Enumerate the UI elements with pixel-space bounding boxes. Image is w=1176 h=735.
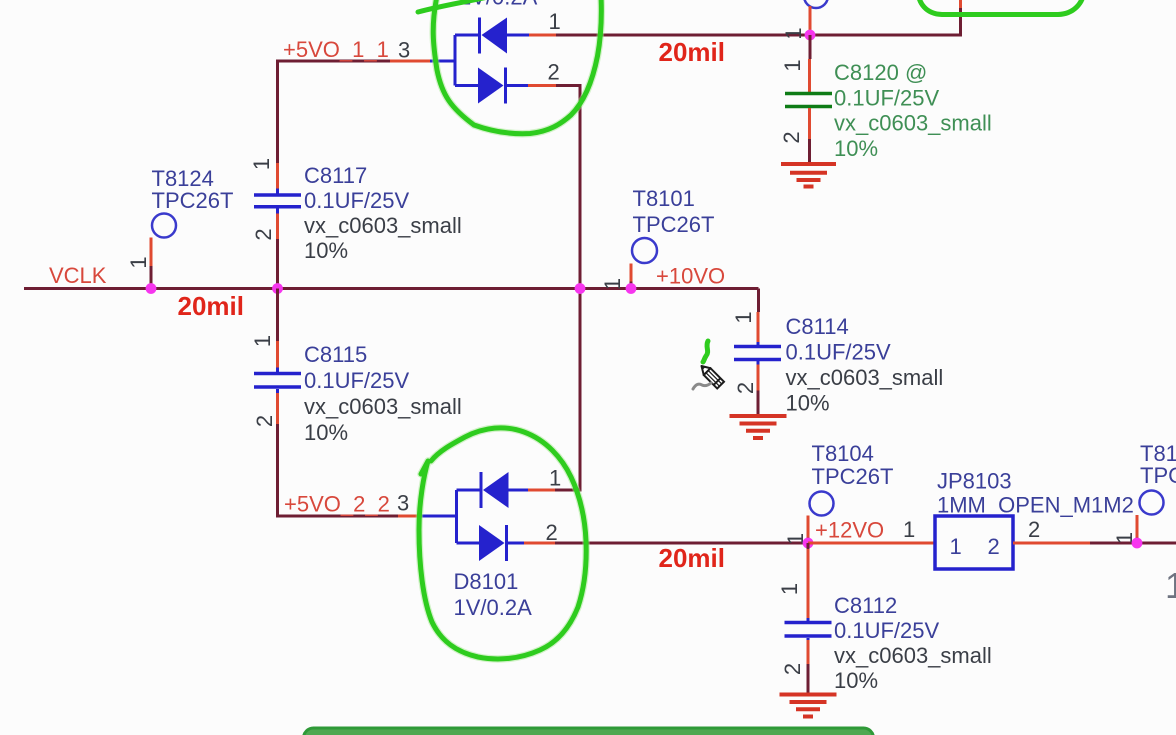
- svg-text:vx_c0603_small: vx_c0603_small: [834, 643, 992, 668]
- diode pair D8101 (bottom): [422, 466, 561, 621]
- svg-text:10%: 10%: [304, 238, 348, 263]
- svg-text:10%: 10%: [786, 391, 830, 416]
- svg-text:1: 1: [600, 278, 625, 290]
- net label +5VO_2_2: [284, 491, 422, 517]
- ground C8112: [780, 695, 837, 717]
- svg-text:20mil: 20mil: [178, 291, 245, 321]
- capacitor C8115: [250, 289, 462, 517]
- svg-text:VCLK: VCLK: [49, 263, 107, 288]
- svg-text:1: 1: [1165, 565, 1176, 606]
- node junction top wire / T8xxx: [805, 30, 816, 41]
- annotation green pen tick near cursor: [703, 341, 708, 362]
- svg-text:2: 2: [251, 228, 276, 240]
- svg-text:2: 2: [779, 131, 804, 143]
- svg-text:TPC26T: TPC26T: [812, 464, 894, 489]
- node junction right / T8105: [1132, 538, 1143, 549]
- svg-text:vx_c0603_small: vx_c0603_small: [304, 213, 462, 238]
- svg-text:1: 1: [781, 27, 806, 39]
- node junction vertical / VCLK: [575, 283, 586, 294]
- node junction VCLK / C8117: [272, 283, 283, 294]
- svg-text:1V/0.2A: 1V/0.2A: [454, 595, 533, 620]
- svg-text:2: 2: [252, 415, 277, 427]
- jumper JP8103: [903, 469, 1134, 570]
- svg-text:10%: 10%: [304, 420, 348, 445]
- node junction +12VO / T8104: [803, 538, 814, 549]
- svg-text:1: 1: [249, 158, 274, 170]
- svg-text:2: 2: [1028, 517, 1040, 542]
- wire D8100 pin2 down vertical to D8101 pin1: [555, 86, 580, 491]
- svg-text:20mil: 20mil: [659, 37, 726, 67]
- annotation green circle around D8101: [419, 428, 586, 659]
- svg-text:TPC26T: TPC26T: [633, 212, 715, 237]
- svg-text:vx_c0603_small: vx_c0603_small: [786, 365, 944, 390]
- svg-text:C8112: C8112: [834, 593, 897, 618]
- svg-text:0.1UF/25V: 0.1UF/25V: [834, 618, 939, 643]
- svg-text:0.1UF/25V: 0.1UF/25V: [304, 188, 409, 213]
- svg-text:1: 1: [780, 59, 805, 71]
- testpoint T8xxx top (cut off): [781, 0, 828, 40]
- svg-text:1: 1: [549, 9, 561, 34]
- diode pair D8100 (top): [430, 0, 561, 104]
- svg-text:C8117: C8117: [304, 163, 367, 188]
- svg-text:T8104: T8104: [812, 441, 874, 466]
- wire D8101 pin2 to the right: [555, 542, 808, 545]
- ground C8114: [730, 416, 787, 438]
- annotation green bar bottom: [304, 728, 874, 735]
- svg-text:+5VO_1_1: +5VO_1_1: [283, 37, 389, 62]
- svg-text:C8114: C8114: [786, 314, 849, 339]
- wire jumper pin2 right: [1013, 542, 1090, 545]
- svg-text:1: 1: [549, 466, 561, 491]
- svg-text:1: 1: [126, 256, 151, 268]
- capacitor C8120 (highlighted green): [779, 35, 992, 163]
- wire +5VO_1_1 net with left bracket vertical: [278, 37, 431, 163]
- svg-text:1MM_OPEN_M1M2: 1MM_OPEN_M1M2: [937, 493, 1134, 518]
- svg-text:+12VO: +12VO: [815, 518, 884, 543]
- svg-text:0.1UF/25V: 0.1UF/25V: [834, 85, 939, 110]
- svg-text:+5VO_2_2: +5VO_2_2: [284, 492, 390, 517]
- annotation green tail top-left: [418, 0, 488, 12]
- svg-text:TPC26T: TPC26T: [152, 188, 234, 213]
- cursor pencil icon: [698, 363, 724, 389]
- svg-text:vx_c0603_small: vx_c0603_small: [834, 111, 992, 136]
- svg-text:2: 2: [733, 382, 758, 394]
- svg-text:3: 3: [397, 491, 409, 516]
- testpoint T8104: [783, 441, 893, 545]
- svg-text:vx_c0603_small: vx_c0603_small: [304, 394, 462, 419]
- svg-text:D8101: D8101: [454, 569, 519, 594]
- ground C8120: [781, 164, 836, 187]
- svg-text:10%: 10%: [834, 136, 878, 161]
- capacitor C8112: [777, 543, 992, 693]
- svg-text:1: 1: [777, 583, 802, 595]
- svg-text:1: 1: [250, 335, 275, 347]
- svg-text:2: 2: [780, 663, 805, 675]
- svg-text:3: 3: [398, 38, 410, 63]
- wire red stub at top edge: [959, 0, 962, 8]
- svg-text:T8101: T8101: [633, 186, 695, 211]
- svg-text:1: 1: [731, 311, 756, 323]
- wire VCLK main horizontal net: [24, 287, 759, 290]
- cursor gray squiggle: [693, 383, 711, 389]
- svg-text:JP8103: JP8103: [937, 469, 1012, 494]
- svg-text:+10VO: +10VO: [656, 264, 725, 289]
- capacitor C8114: [731, 289, 943, 416]
- svg-text:TPC26T: TPC26T: [1140, 463, 1176, 488]
- svg-text:0.1UF/25V: 0.1UF/25V: [304, 368, 409, 393]
- capacitor C8117: [249, 158, 462, 289]
- wire D8100 pin1 to top-right: [556, 8, 961, 35]
- wire +12VO red segment to jumper: [808, 542, 935, 545]
- svg-text:C8115: C8115: [304, 342, 367, 367]
- svg-text:1: 1: [903, 517, 915, 542]
- testpoint T8101: [600, 186, 714, 290]
- testpoint T8124: [126, 166, 233, 289]
- svg-text:2: 2: [546, 520, 558, 545]
- svg-text:0.1UF/25V: 0.1UF/25V: [786, 340, 891, 365]
- svg-text:20mil: 20mil: [659, 543, 726, 573]
- svg-text:10%: 10%: [834, 668, 878, 693]
- svg-text:2: 2: [988, 534, 1000, 559]
- annotation green rounded rect top-right (cut off): [918, 0, 1084, 15]
- svg-text:1: 1: [950, 534, 962, 559]
- svg-text:C8120 @: C8120 @: [834, 60, 927, 85]
- node junction VCLK / T8124: [146, 283, 157, 294]
- annotation green circle around D8100: [433, 0, 601, 134]
- svg-text:2: 2: [548, 60, 560, 85]
- node junction VCLK / T8101: [626, 283, 637, 294]
- testpoint T8105 right (cut off): [1112, 441, 1176, 544]
